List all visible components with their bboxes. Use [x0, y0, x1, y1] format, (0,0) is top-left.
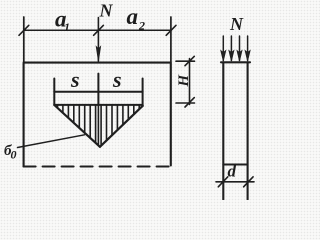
- H bottom tick: [185, 98, 194, 107]
- force N arrowhead: [96, 47, 100, 62]
- svg-text:s: s: [112, 67, 122, 92]
- svg-text:H: H: [176, 74, 192, 88]
- foundation slab plan bottom dashed edge: [24, 165, 171, 167]
- strip right edge tick: [142, 79, 144, 107]
- wall side view left edge: [222, 62, 224, 199]
- svg-text:N: N: [229, 14, 244, 34]
- H bottom reference line: [176, 102, 195, 104]
- loaded strip top line with s dimension: [54, 91, 142, 93]
- dimension line a1/a2: [24, 29, 171, 31]
- distributed load arrow 1: [221, 36, 226, 61]
- distributed load arrow 4: [245, 36, 250, 61]
- svg-text:a: a: [127, 4, 139, 29]
- svg-text:s: s: [70, 67, 80, 92]
- H top tick: [185, 56, 194, 65]
- wall side view top edge: [221, 61, 250, 63]
- d left tick: [218, 177, 228, 187]
- svg-text:d: d: [228, 162, 237, 181]
- stress diagram hatching: [58, 106, 140, 146]
- svg-text:2: 2: [138, 19, 145, 33]
- svg-text:1: 1: [64, 20, 70, 34]
- force N axis line: [97, 18, 99, 62]
- loaded strip bottom line: [54, 104, 142, 106]
- H top reference line: [176, 60, 195, 62]
- tick center: [94, 25, 104, 35]
- stress diagram right hypotenuse: [100, 106, 143, 147]
- d dimension line: [216, 181, 254, 183]
- wall side view right edge: [247, 62, 249, 199]
- d right tick: [244, 177, 254, 187]
- svg-text:N: N: [99, 1, 114, 21]
- tick right: [166, 25, 176, 35]
- H dimension line: [189, 59, 191, 105]
- foundation slab plan outline (top/left/right): [24, 63, 171, 167]
- extension line right: [170, 17, 172, 62]
- stress diagram left hypotenuse: [54, 105, 100, 147]
- tick left: [19, 25, 29, 35]
- strip left edge tick: [53, 79, 55, 106]
- extension line left: [23, 17, 25, 62]
- distributed load arrow 2: [229, 36, 234, 61]
- strip center tick: [97, 74, 99, 105]
- distributed load arrow 3: [237, 36, 242, 61]
- leader line from sigma0 to stress diagram: [18, 135, 85, 148]
- svg-text:0: 0: [11, 148, 17, 162]
- wall side view bottom line: [223, 164, 247, 166]
